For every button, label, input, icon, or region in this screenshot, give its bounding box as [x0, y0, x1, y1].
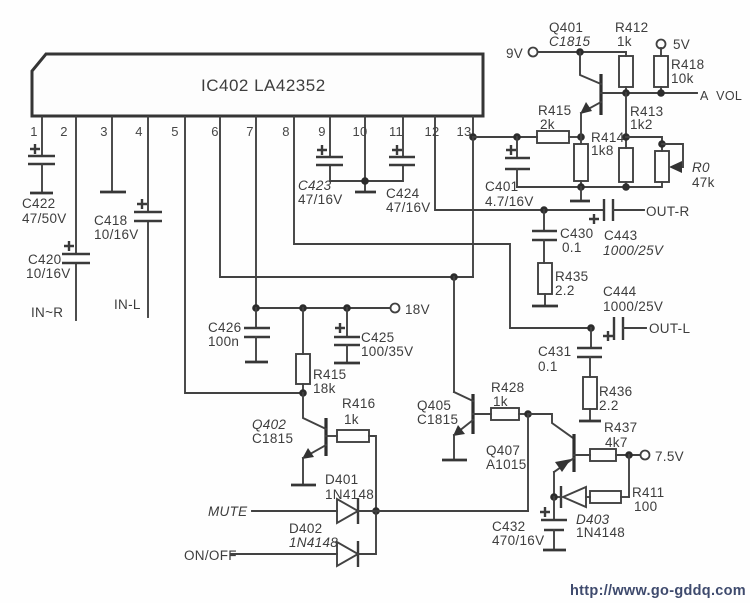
svg-text:Q402: Q402 [252, 417, 286, 432]
svg-text:1k: 1k [617, 34, 632, 49]
pin 8 [282, 124, 290, 139]
potentiometer R0 [655, 140, 715, 190]
ground pin3 [100, 191, 126, 194]
svg-text:2k: 2k [540, 117, 555, 132]
svg-text:470/16V: 470/16V [492, 533, 544, 548]
node C425 top [343, 304, 351, 312]
svg-text:100: 100 [634, 499, 657, 514]
capacitor C431 [538, 328, 602, 377]
svg-text:18k: 18k [313, 381, 336, 396]
node OUT-L [649, 321, 690, 336]
terminal 7.5V [641, 449, 684, 464]
node R414 bottom [577, 183, 585, 191]
wire pin13 [472, 117, 474, 137]
wire pin8 to OUT-L [294, 117, 591, 328]
pin 3 [100, 124, 108, 139]
svg-text:4: 4 [135, 124, 143, 139]
svg-text:5V: 5V [673, 37, 690, 52]
diode D401 [325, 472, 376, 524]
transistor Q407 [486, 414, 574, 497]
svg-text:C424: C424 [386, 186, 420, 201]
svg-text:5: 5 [171, 124, 179, 139]
svg-text:10k: 10k [671, 71, 694, 86]
terminal 9V [506, 46, 538, 61]
resistor R412 [615, 20, 648, 93]
pin 9 [318, 124, 326, 139]
ground pin10 [355, 191, 376, 194]
svg-text:47k: 47k [692, 175, 715, 190]
capacitor C443 [589, 199, 665, 258]
svg-text:1k: 1k [493, 394, 508, 409]
svg-text:IN-L: IN-L [114, 297, 141, 312]
wire pin3 to ground [111, 117, 113, 190]
ground Q402 emitter [291, 484, 316, 487]
svg-text:47/50V: 47/50V [22, 211, 67, 226]
pin 6 [211, 124, 219, 139]
svg-text:C1815: C1815 [417, 412, 458, 427]
wire R413 junction to R0 [626, 137, 662, 151]
resistor R414 [574, 130, 625, 187]
watermark URL [570, 583, 746, 599]
node pin13 junction [469, 133, 477, 141]
svg-text:C426: C426 [208, 320, 241, 335]
capacitor C424 [386, 145, 431, 215]
transistor Q405 [417, 277, 473, 458]
pin 4 [135, 124, 143, 139]
svg-text:10/16V: 10/16V [26, 266, 71, 281]
ground below R435 [532, 305, 558, 308]
svg-text:C430: C430 [560, 226, 593, 241]
wire MUTE to Q407 [376, 510, 528, 512]
wire pin7 to 18V rail [256, 117, 390, 308]
wire pin5 [185, 117, 303, 393]
svg-text:10/16V: 10/16V [94, 227, 139, 242]
resistor R415 2k [537, 103, 577, 143]
node OUT-R [646, 204, 690, 219]
svg-text:9: 9 [318, 124, 326, 139]
svg-text:1k: 1k [344, 412, 359, 427]
svg-text:9V: 9V [506, 46, 523, 61]
svg-text:7: 7 [246, 124, 254, 139]
svg-text:4.7/16V: 4.7/16V [485, 194, 534, 209]
pin 10 [352, 124, 367, 139]
svg-text:IC402 LA42352: IC402 LA42352 [201, 76, 326, 95]
svg-text:OUT-R: OUT-R [646, 204, 690, 219]
wire pin10 [364, 117, 366, 191]
node emitter junction [577, 133, 585, 141]
node R412 bottom [622, 89, 630, 97]
svg-text:7.5V: 7.5V [655, 449, 684, 464]
resistor R416 [326, 396, 376, 511]
svg-text:C431: C431 [538, 344, 571, 359]
svg-text:1000/25V: 1000/25V [603, 243, 665, 258]
svg-text:47/16V: 47/16V [298, 192, 343, 207]
svg-text:Q401: Q401 [549, 20, 583, 35]
svg-text:Q405: Q405 [417, 398, 451, 413]
svg-text:R412: R412 [615, 20, 648, 35]
wire pin2 to IN-R [75, 117, 77, 320]
svg-text:4k7: 4k7 [605, 435, 628, 450]
node OUT-R junction [540, 206, 548, 214]
diode D402 [289, 511, 376, 567]
svg-text:C401: C401 [485, 179, 518, 194]
pin 1 [30, 124, 38, 139]
svg-text:0.1: 0.1 [562, 240, 582, 255]
IC IC402 LA42352 [32, 54, 483, 116]
wire net pin13 to R415 [473, 136, 537, 138]
resistor R413 [619, 93, 663, 187]
svg-text:1N4148: 1N4148 [289, 535, 338, 550]
pin 13 [456, 124, 471, 139]
svg-text:C422: C422 [22, 196, 55, 211]
transistor Q402 [252, 393, 326, 483]
svg-text:18V: 18V [405, 302, 430, 317]
svg-text:OUT-L: OUT-L [649, 321, 690, 336]
svg-text:R0: R0 [692, 160, 710, 175]
svg-text:2.2: 2.2 [599, 398, 619, 413]
svg-text:C425: C425 [361, 330, 394, 345]
svg-text:11: 11 [389, 124, 403, 139]
wire 9V rail [538, 51, 626, 53]
node Q402 collector junction [299, 389, 307, 397]
svg-text:R416: R416 [342, 396, 375, 411]
svg-text:R411: R411 [632, 485, 664, 500]
ground Q405 emitter [442, 459, 467, 462]
resistor R428 [473, 380, 528, 420]
ground below C432 [543, 549, 566, 552]
wire bottom bias line [517, 186, 661, 188]
svg-text:IN~R: IN~R [31, 305, 63, 320]
svg-text:47/16V: 47/16V [386, 200, 431, 215]
svg-text:ON/OFF: ON/OFF [184, 548, 237, 563]
svg-text:100n: 100n [208, 334, 239, 349]
node IN-R [31, 305, 63, 320]
svg-text:R437: R437 [604, 420, 637, 435]
resistor R415 18k [296, 308, 346, 396]
diode D403 [554, 486, 625, 540]
svg-text:R428: R428 [491, 380, 524, 395]
wire pin6 [220, 117, 473, 277]
svg-text:8: 8 [282, 124, 290, 139]
node C401 top [513, 133, 521, 141]
capacitor C423 [298, 145, 343, 207]
wire pin9 [330, 117, 365, 181]
svg-text:100/35V: 100/35V [361, 344, 413, 359]
resistor R437 [574, 420, 640, 461]
svg-text:C443: C443 [604, 228, 637, 243]
ground bias line [570, 187, 590, 201]
svg-text:C420: C420 [28, 252, 61, 267]
svg-text:C444: C444 [603, 284, 637, 299]
svg-text:R415: R415 [313, 367, 346, 382]
resistor R436 [583, 377, 632, 419]
terminal 18V [391, 302, 430, 317]
capacitor C430 [532, 210, 593, 263]
node R413 top junction [622, 133, 630, 141]
terminal 5V [657, 37, 691, 52]
svg-text:C423: C423 [298, 178, 332, 193]
ground below C426 [245, 361, 268, 364]
wire A VOL line [601, 92, 697, 94]
node C432 junction [550, 493, 558, 501]
svg-text:1N4148: 1N4148 [576, 525, 625, 540]
resistor R418 [654, 48, 704, 93]
node R418 bottom [657, 89, 665, 97]
svg-text:R436: R436 [599, 384, 632, 399]
svg-text:0.1: 0.1 [538, 359, 558, 374]
wire pin4 to IN-L [147, 117, 149, 317]
wire ON/OFF line [231, 553, 337, 555]
pin 5 [171, 124, 179, 139]
capacitor C425 [334, 308, 413, 361]
node Q401 collector [576, 48, 584, 56]
node C426 top [252, 304, 260, 312]
svg-text:MUTE: MUTE [208, 504, 248, 519]
wire pin1 to C422 [41, 117, 43, 156]
node 7.5V junction [625, 451, 633, 459]
node R415b top [299, 304, 307, 312]
svg-text:2.2: 2.2 [555, 283, 575, 298]
ground below R436 [579, 420, 601, 423]
transistor Q401 [549, 20, 601, 137]
svg-text:http://www.go-gddq.com: http://www.go-gddq.com [570, 583, 746, 599]
svg-text:1N4148: 1N4148 [325, 487, 374, 502]
svg-text:1: 1 [30, 124, 38, 139]
svg-text:D402: D402 [289, 521, 322, 536]
resistor R411 [590, 485, 664, 514]
node IN-L [114, 297, 141, 312]
svg-text:C1815: C1815 [252, 431, 293, 446]
pin 12 [424, 124, 439, 139]
pin 11 [389, 124, 403, 139]
svg-text:R418: R418 [671, 57, 704, 72]
svg-text:R435: R435 [555, 269, 588, 284]
node OUT-L junction [587, 324, 595, 332]
wire MUTE line [252, 510, 337, 512]
svg-text:A1015: A1015 [486, 457, 527, 472]
capacitor C418 [94, 199, 162, 242]
node MUTE [208, 504, 248, 519]
wire R411 riser [628, 455, 630, 497]
svg-text:2: 2 [60, 124, 68, 139]
node R428 junction [524, 410, 532, 418]
ground below C422 [30, 192, 53, 195]
node MUTE diode junction [372, 507, 380, 515]
capacitor C432 [492, 497, 567, 548]
svg-text:1k8: 1k8 [591, 143, 614, 158]
pin 7 [246, 124, 254, 139]
svg-text:6: 6 [211, 124, 219, 139]
capacitor C420 [26, 241, 90, 281]
svg-text:12: 12 [424, 124, 439, 139]
wire net x473 riser [472, 137, 474, 277]
svg-text:D401: D401 [325, 472, 358, 487]
svg-text:3: 3 [100, 124, 108, 139]
svg-text:R415: R415 [538, 103, 571, 118]
node A VOL [700, 89, 742, 103]
svg-text:C432: C432 [492, 519, 525, 534]
resistor R435 [538, 263, 588, 305]
node pin10 junction [361, 177, 369, 185]
wire pin11 [365, 117, 403, 181]
capacitor C444 [603, 284, 663, 341]
ground below C425 [334, 362, 360, 365]
svg-text:Q407: Q407 [486, 443, 520, 458]
pin 2 [60, 124, 68, 139]
wire R428 junction drop [527, 414, 529, 511]
capacitor C422 [22, 144, 67, 226]
capacitor C426 [208, 308, 270, 360]
svg-text:1000/25V: 1000/25V [603, 299, 663, 314]
node ON/OFF [184, 548, 237, 563]
node Q405 collector junction [450, 273, 458, 281]
svg-text:C1815: C1815 [549, 34, 590, 49]
node R413 bottom [622, 183, 630, 191]
capacitor C401 [485, 137, 534, 209]
wire pin12 to OUT-R line [435, 117, 603, 210]
svg-text:A VOL: A VOL [700, 89, 742, 103]
svg-text:C418: C418 [94, 213, 127, 228]
svg-text:1k2: 1k2 [630, 117, 653, 132]
